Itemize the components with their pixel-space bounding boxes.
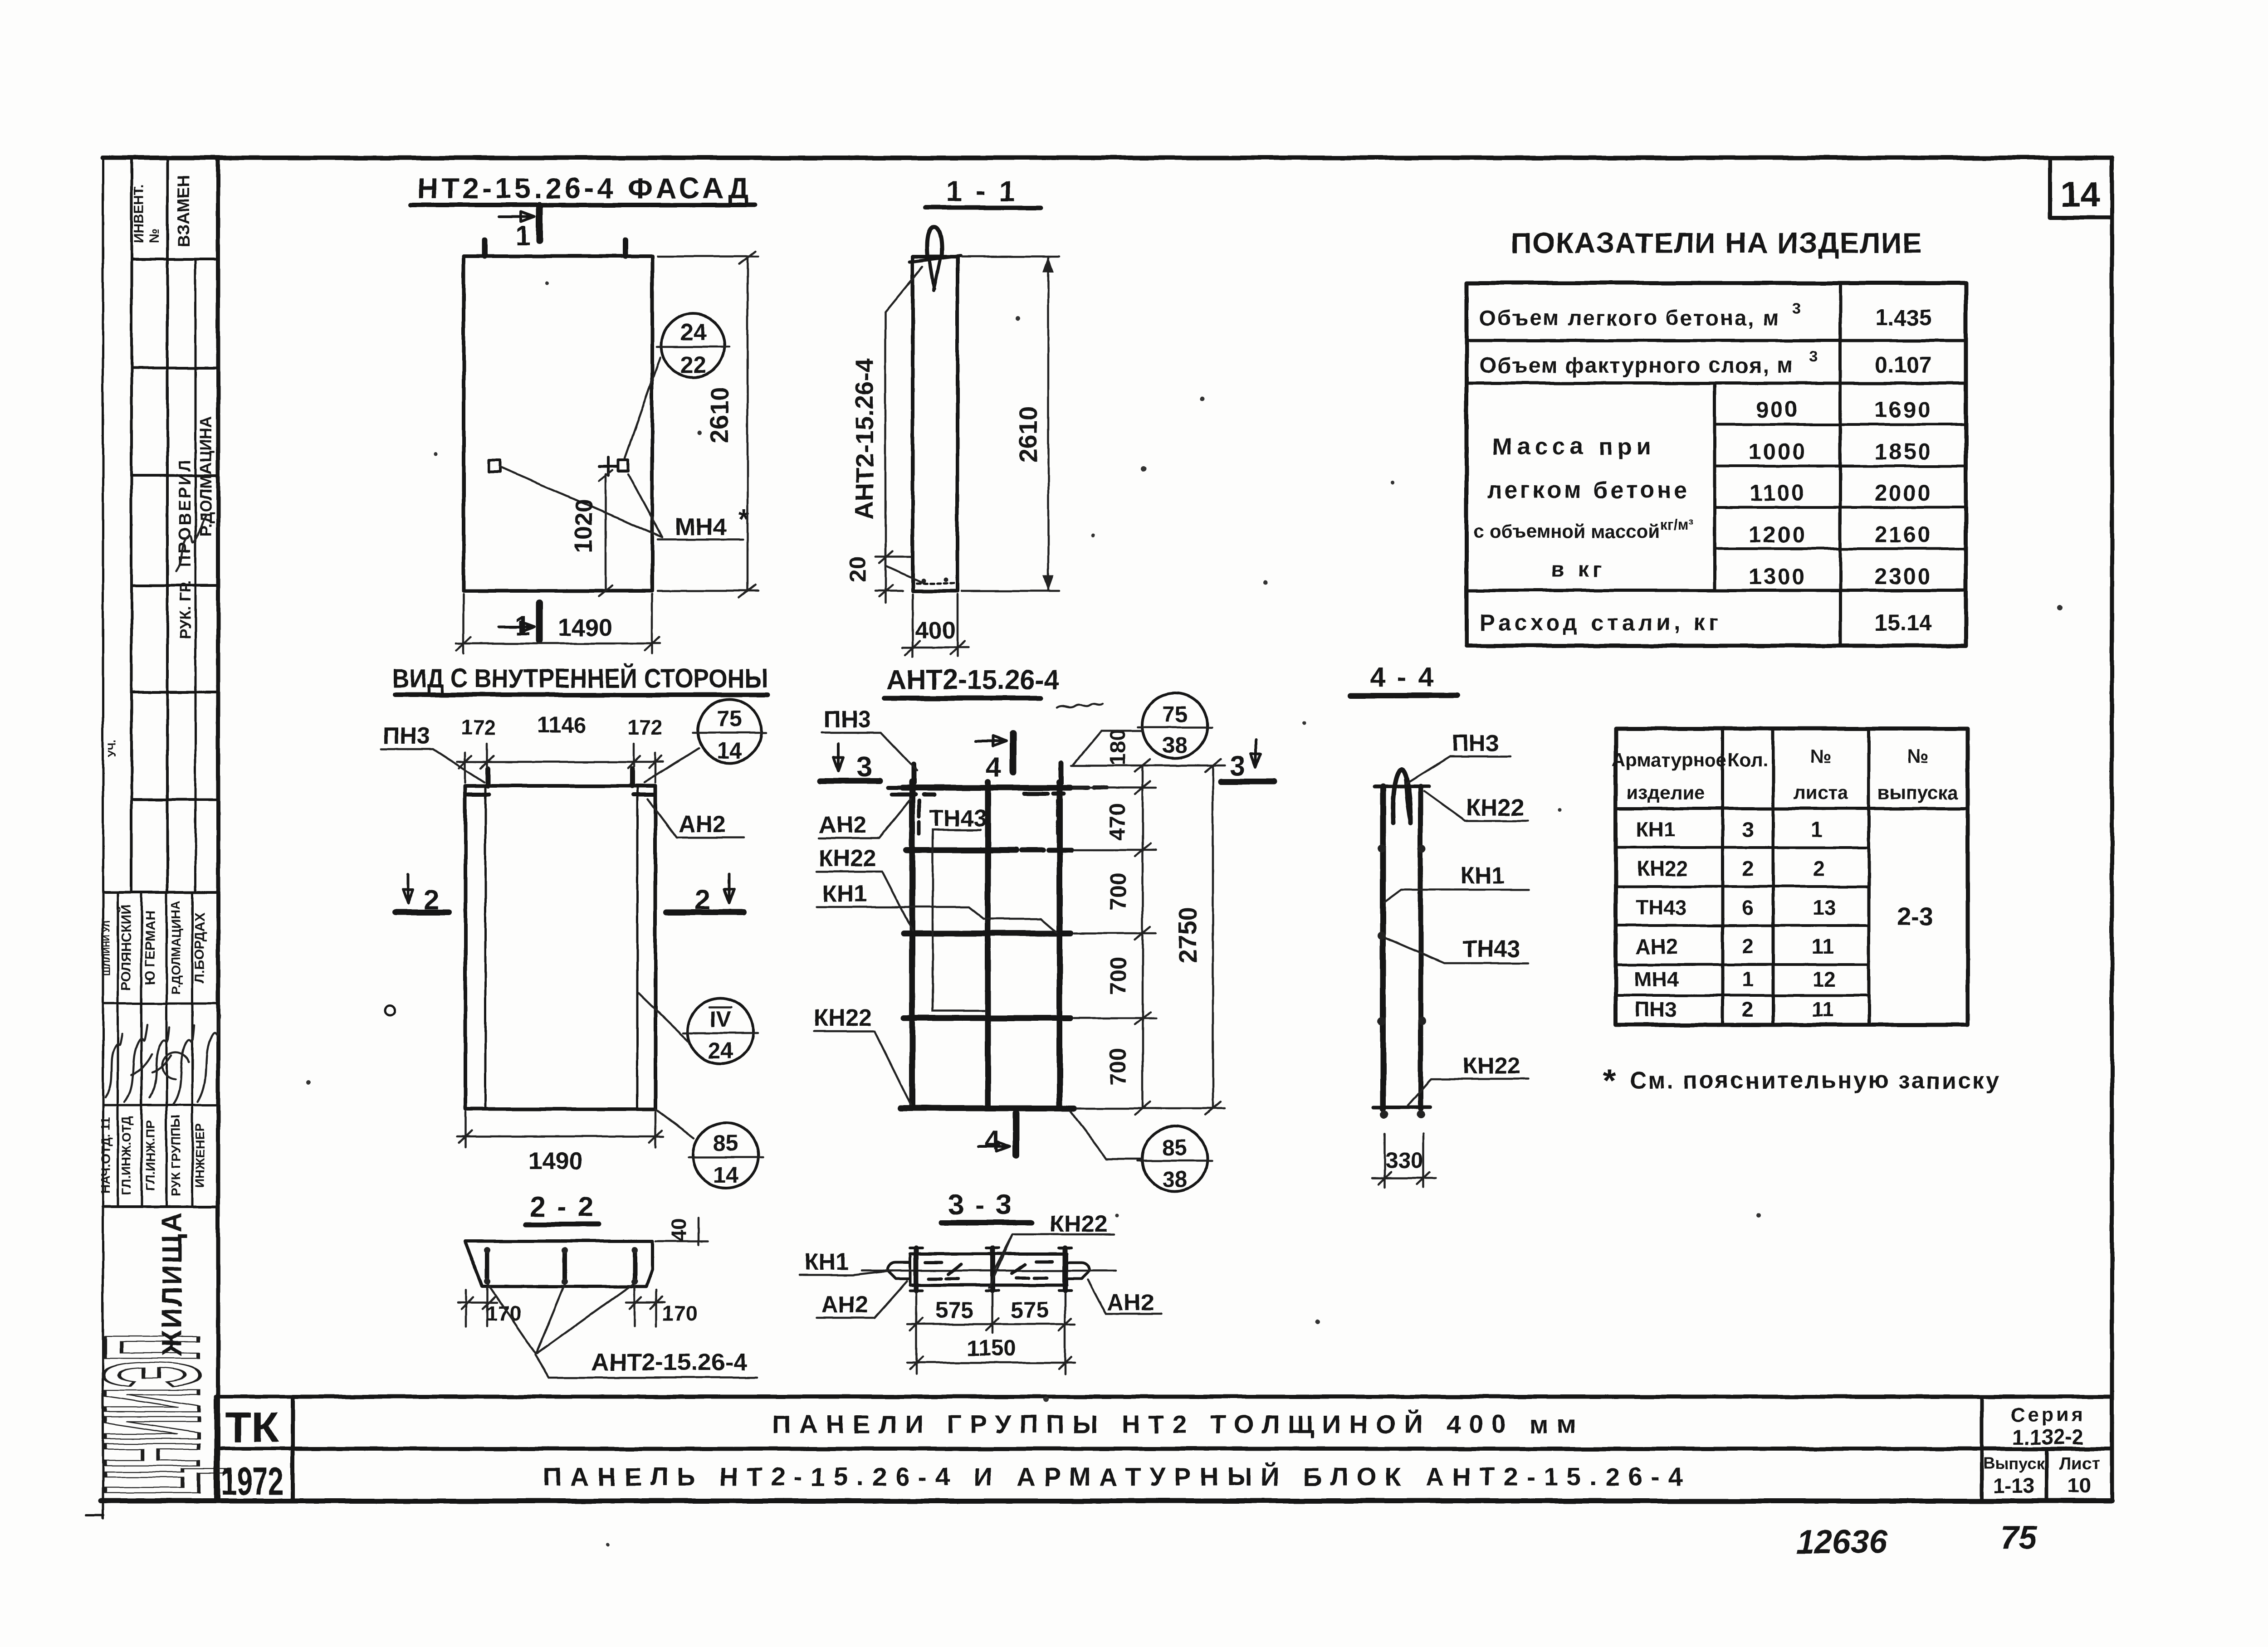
series box — [1982, 1397, 2047, 1500]
svg-text:См. пояснительную записку: См. пояснительную записку — [1629, 1067, 1999, 1094]
anchor cross mark — [599, 457, 617, 475]
rebar block title underline — [885, 696, 1041, 701]
svg-text:12636: 12636 — [1796, 1524, 1887, 1560]
section 2-2 underline — [526, 1222, 599, 1227]
dim 170 left ext — [466, 1287, 487, 1326]
svg-text:75: 75 — [2000, 1520, 2037, 1556]
circle IV/24 divider — [683, 1032, 758, 1034]
bar nub left 3 — [1378, 1017, 1386, 1025]
svg-text:14: 14 — [717, 738, 742, 763]
inner strip line right — [636, 786, 639, 1109]
svg-text:ВИД С ВНУТРЕННЕЙ СТОРОНЫ: ВИД С ВНУТРЕННЕЙ СТОРОНЫ — [392, 664, 768, 693]
inner dashes right bay — [1012, 1262, 1052, 1278]
TITLE-BLOCK — [216, 1397, 2112, 1560]
svg-text:38: 38 — [1162, 732, 1188, 758]
svg-text:КН22: КН22 — [1637, 857, 1688, 880]
svg-text:листа: листа — [1794, 782, 1848, 803]
section 4-4 underline — [1351, 693, 1457, 698]
dim 1490 bottom ticks — [459, 1130, 662, 1143]
table value column line — [1839, 283, 1842, 646]
svg-text:1: 1 — [1811, 818, 1823, 841]
svg-text:№: № — [1810, 746, 1832, 767]
facing layer bottom speckle — [916, 582, 954, 585]
section 3 right arrow — [1251, 739, 1261, 767]
dim right ext top — [1071, 765, 1156, 767]
leader circle 75/38 — [1073, 731, 1143, 765]
svg-text:Расход стали, кг: Расход стали, кг — [1480, 610, 1722, 635]
dim 1490 line bottom — [457, 1135, 663, 1138]
svg-text:575: 575 — [1011, 1297, 1048, 1323]
dim 40 ext — [655, 1218, 708, 1245]
SECTION-1-1 — [845, 175, 1059, 657]
svg-text:выпуска: выпуска — [1877, 782, 1958, 803]
svg-text:ПОКАЗАТЕЛИ НА ИЗДЕЛИЕ: ПОКАЗАТЕЛИ НА ИЗДЕЛИЕ — [1511, 227, 1922, 259]
AN2 underline leader — [648, 799, 744, 838]
svg-text:Выпуск: Выпуск — [1983, 1454, 2045, 1473]
right end tab — [1067, 1254, 1090, 1285]
rebar table row line 2 — [1616, 885, 1869, 888]
inner view title underline — [395, 692, 767, 697]
svg-text:1020: 1020 — [570, 499, 597, 553]
left border foot tick — [86, 1514, 103, 1516]
svg-text:ТН43: ТН43 — [1462, 936, 1520, 962]
section 1-1 title underline — [925, 205, 1041, 210]
svg-text:Масса при: Масса при — [1492, 434, 1656, 460]
svg-text:Объем легкого бетона, м: Объем легкого бетона, м — [1480, 306, 1780, 330]
dim 2610 arrows — [1043, 257, 1054, 591]
signature squiggle col1 — [105, 1034, 122, 1097]
PN3 leg dash right — [1056, 800, 1060, 833]
svg-text:Объем фактурного слоя, м: Объем фактурного слоя, м — [1480, 354, 1794, 378]
dim top line — [457, 761, 663, 763]
svg-text:2 - 2: 2 - 2 — [530, 1191, 595, 1223]
dim 575 line — [907, 1323, 1075, 1325]
table line row1 — [1466, 339, 1966, 342]
mark circle 75/14 — [698, 699, 761, 763]
dim 2610 extension top — [962, 256, 1059, 258]
dim 2750 line — [1156, 765, 1225, 1108]
center axis line — [862, 1270, 1116, 1272]
rebar table row line 3 — [1616, 924, 1869, 927]
KN22 bottom underline leader — [1408, 1079, 1529, 1106]
svg-text:Лист: Лист — [2059, 1454, 2100, 1473]
svg-text:кг/м³: кг/м³ — [1660, 517, 1693, 533]
svg-text:22: 22 — [680, 352, 706, 378]
rebar group 1 dots — [484, 1247, 490, 1253]
svg-text:4 - 4: 4 - 4 — [1370, 662, 1435, 693]
dim 330 ext lines — [1385, 1134, 1423, 1187]
INDICATORS-TABLE — [1466, 227, 1966, 646]
signature squiggle col3 — [150, 1027, 171, 1097]
svg-text:11: 11 — [1812, 935, 1834, 958]
svg-text:Арматурное: Арматурное — [1612, 749, 1727, 770]
svg-text:700: 700 — [1105, 1048, 1131, 1085]
rebar table col line 3 — [1867, 729, 1871, 1025]
PN3 tick right — [630, 769, 635, 786]
svg-text:КН22: КН22 — [1050, 1211, 1107, 1237]
svg-text:1200: 1200 — [1749, 522, 1806, 547]
dim 1490 ticks — [456, 637, 660, 651]
mark circle 85/14 — [693, 1123, 758, 1188]
section 3 left underline — [820, 778, 880, 784]
svg-text:2: 2 — [1813, 857, 1825, 880]
body outline top — [910, 1252, 1067, 1256]
section 2-2 body — [464, 1241, 652, 1286]
vertical bar right — [1057, 782, 1063, 1108]
dim 1150 ticks — [910, 1357, 1071, 1369]
table line row2 — [1466, 382, 1966, 385]
mass sub row line 4 — [1715, 547, 1966, 550]
svg-text:400: 400 — [915, 617, 956, 644]
LEFT-STAMP-COLUMN — [76, 158, 228, 1500]
svg-text:3: 3 — [1809, 348, 1818, 365]
svg-text:ИНВЕНТ.: ИНВЕНТ. — [132, 185, 147, 244]
mark circle 85/38 — [1142, 1126, 1207, 1192]
svg-text:1.435: 1.435 — [1875, 305, 1931, 330]
lifting loop tick left — [482, 240, 488, 256]
signature table divider signs/roles — [103, 1104, 218, 1106]
dim 20 tick line — [879, 544, 893, 603]
leader label to hook — [885, 267, 923, 312]
dim top ext lines — [465, 744, 655, 783]
bar nub bottom right — [1417, 1111, 1425, 1119]
svg-text:40: 40 — [667, 1218, 690, 1241]
rebar group 2 dots — [562, 1247, 568, 1253]
leader circle to anchor — [625, 357, 660, 458]
sheet top frame line — [103, 156, 2112, 160]
signature squiggle col2 — [125, 1025, 152, 1102]
svg-text:ПН3: ПН3 — [1452, 730, 1499, 756]
svg-text:КН22: КН22 — [1466, 794, 1524, 821]
svg-text:1972: 1972 — [221, 1460, 283, 1503]
mass sub row line 2 — [1715, 465, 1966, 468]
inner strip line left — [484, 786, 487, 1109]
SHEET-FRAME — [86, 158, 2112, 1518]
svg-text:КН22: КН22 — [814, 1005, 871, 1031]
KN22 top underline leader — [1424, 791, 1528, 821]
REBAR-TABLE — [1612, 729, 1968, 1025]
svg-text:в кг: в кг — [1551, 558, 1605, 582]
svg-text:14: 14 — [2061, 174, 2100, 214]
left end tab — [888, 1254, 910, 1285]
dim right ext bottom — [1077, 1107, 1156, 1110]
svg-text:ТК: ТК — [225, 1403, 279, 1452]
dim 1490 line — [456, 643, 660, 645]
SECTION-3-3 — [799, 1189, 1161, 1374]
sheet number box 14 — [2050, 160, 2112, 218]
svg-text:172: 172 — [628, 716, 663, 739]
dim 170 right line — [626, 1297, 665, 1309]
SECTION-4-4 — [1351, 662, 1529, 1187]
svg-text:0.107: 0.107 — [1875, 352, 1931, 378]
stamp row divider y1049 — [132, 474, 218, 477]
svg-text:УЧ.: УЧ. — [106, 740, 118, 757]
svg-text:1: 1 — [515, 220, 530, 251]
svg-text:изделие: изделие — [1627, 782, 1705, 803]
dim 1020 ticks — [599, 470, 612, 596]
PN3 underline leader — [822, 733, 917, 771]
leader label to bottom anchor — [885, 312, 922, 582]
svg-text:170: 170 — [486, 1301, 521, 1325]
svg-text:38: 38 — [1162, 1167, 1188, 1192]
section mark 1 top arrow — [499, 212, 534, 222]
frame bottom edge — [101, 1499, 2112, 1504]
PN3 tick above right bar — [1059, 763, 1064, 783]
svg-text:легком бетоне: легком бетоне — [1487, 477, 1690, 503]
signature table column line 2 — [141, 892, 143, 1207]
circle IV overbar — [709, 1007, 731, 1009]
svg-text:ПН3: ПН3 — [824, 707, 871, 733]
svg-text:170: 170 — [662, 1301, 697, 1325]
svg-text:3: 3 — [1793, 300, 1801, 317]
mass sub row line 3 — [1715, 506, 1966, 509]
svg-text:2: 2 — [1742, 857, 1754, 880]
svg-text:1: 1 — [1742, 967, 1754, 991]
svg-text:2160: 2160 — [1874, 522, 1932, 547]
signature squiggle upper — [176, 515, 206, 571]
svg-text:АНТ2-15.26-4: АНТ2-15.26-4 — [887, 664, 1060, 696]
scan noise specks — [306, 282, 2062, 1546]
svg-text:АНТ2-15.26-4: АНТ2-15.26-4 — [850, 359, 879, 520]
dim 1020 line — [605, 474, 607, 591]
svg-text:МН4: МН4 — [1634, 967, 1679, 991]
stamp row divider y1763 — [132, 798, 218, 801]
dim 20 ext lines — [875, 557, 911, 591]
svg-text:Серия: Серия — [2010, 1404, 2086, 1426]
dim right ext rows — [1074, 788, 1156, 1018]
section 3 left arrow — [833, 744, 843, 771]
svg-text:ГЛ.ИНЖ.ОТД: ГЛ.ИНЖ.ОТД — [119, 1116, 133, 1195]
label underline — [535, 1355, 757, 1378]
svg-text:2610: 2610 — [705, 387, 733, 443]
svg-text:15.14: 15.14 — [1875, 610, 1931, 635]
small circle mark — [385, 1005, 395, 1015]
signature table top line — [103, 891, 218, 894]
mass sub row line 1 — [1715, 423, 1966, 426]
top tie — [1374, 785, 1429, 788]
bar nub right 1 — [1418, 844, 1426, 853]
svg-text:1.132-2: 1.132-2 — [2013, 1425, 2083, 1449]
label MN4 underline — [658, 539, 743, 541]
svg-text:1000: 1000 — [1749, 439, 1806, 464]
svg-text:3: 3 — [1742, 818, 1754, 841]
TN43 outline box — [933, 830, 985, 1011]
mark circle IV/24 — [688, 999, 753, 1064]
KN1 underline leader — [799, 1271, 893, 1275]
dim 575 ticks — [910, 1318, 1071, 1330]
facade title underline — [411, 203, 755, 207]
rebar group 1 — [485, 1249, 489, 1282]
leader lines to label point — [487, 1283, 635, 1354]
svg-text:180: 180 — [1106, 729, 1130, 765]
KN22 second underline leader — [814, 1031, 911, 1105]
svg-text:4: 4 — [986, 752, 1001, 782]
anchor bar right ticks — [1059, 1248, 1071, 1291]
svg-text:14: 14 — [713, 1162, 738, 1188]
svg-text:2: 2 — [1742, 998, 1754, 1021]
section 2 right arrow — [724, 874, 734, 903]
svg-text:АН2: АН2 — [821, 1291, 868, 1318]
body outline bottom — [910, 1284, 1067, 1287]
svg-text:КН22: КН22 — [818, 845, 876, 872]
circle 75/14 divider — [693, 732, 766, 734]
svg-text:900: 900 — [1756, 397, 1799, 422]
dim 400 line — [903, 647, 968, 649]
rebar group 3 — [632, 1249, 637, 1282]
svg-text:АН2: АН2 — [1107, 1290, 1154, 1316]
leader circle 85/14 to corner — [655, 1109, 694, 1138]
dim 2610 extension top — [658, 255, 758, 258]
svg-text:2-3: 2-3 — [1897, 902, 1934, 931]
dim top ticks — [459, 756, 662, 768]
stamp vertical line x290 — [130, 159, 133, 892]
svg-text:РУК. ГР.: РУК. ГР. — [177, 580, 194, 639]
svg-text:330: 330 — [1385, 1148, 1423, 1173]
leader circle IV/24 to strip — [639, 993, 688, 1041]
svg-text:75: 75 — [1162, 702, 1188, 727]
FOOTNOTE — [1603, 1063, 1999, 1099]
PN3 leg dash left — [917, 800, 921, 833]
svg-text:1100: 1100 — [1750, 480, 1806, 506]
section 4 bottom tick — [1013, 1113, 1020, 1155]
AN2 dash left — [892, 793, 934, 797]
squiggle mark near circle — [1057, 704, 1103, 707]
KN22 leader — [989, 1234, 1114, 1288]
PN3 tick above left bar — [912, 765, 917, 783]
svg-text:13: 13 — [1813, 896, 1836, 919]
lifting loop tick right — [622, 240, 628, 256]
svg-text:20: 20 — [845, 556, 870, 582]
section mark 1 bottom tick — [536, 603, 543, 640]
FACADE-VIEW — [411, 172, 758, 654]
svg-text:2000: 2000 — [1874, 480, 1932, 506]
title block outer box — [293, 1397, 2112, 1500]
SECTION-2-2 — [458, 1191, 757, 1378]
stamp row divider y1291 — [132, 584, 218, 587]
svg-text:6: 6 — [1742, 896, 1754, 919]
bar right — [1418, 786, 1423, 1109]
dim 400 ext lines — [913, 594, 958, 657]
svg-text:АН2: АН2 — [1636, 935, 1677, 958]
signature squiggle col5 — [198, 1016, 220, 1102]
svg-text:470: 470 — [1105, 803, 1130, 840]
leader anchor left to MN4 point — [500, 467, 662, 537]
anchor square left — [489, 460, 500, 472]
inner dashes left bay — [925, 1262, 961, 1279]
svg-text:2750: 2750 — [1173, 907, 1202, 964]
section 2 left arrow — [403, 874, 413, 903]
signature table column line 3 — [166, 892, 168, 1207]
svg-text:24: 24 — [708, 1038, 733, 1063]
KN1 underline leader stepped — [816, 907, 1057, 932]
svg-text:575: 575 — [935, 1297, 973, 1323]
bar left — [1380, 786, 1386, 1109]
svg-text:МН4: МН4 — [675, 513, 727, 541]
horizontal bar 3 — [904, 931, 1070, 936]
mark circle 75/38 — [1142, 693, 1207, 758]
rebar table row line 1 — [1616, 846, 1869, 849]
leader MN4 to anchor — [628, 474, 662, 537]
svg-text:700: 700 — [1105, 872, 1131, 910]
svg-text:2610: 2610 — [1014, 406, 1042, 463]
signature table bottom line — [103, 1205, 218, 1208]
svg-text:1146: 1146 — [537, 712, 586, 738]
section 3 right underline — [1221, 779, 1274, 785]
rebar group 2 — [562, 1249, 567, 1282]
svg-text:11: 11 — [1812, 998, 1834, 1021]
svg-text:*: * — [1603, 1063, 1616, 1099]
dim 2610 extension bottom — [962, 590, 1059, 592]
svg-text:ПН3: ПН3 — [383, 723, 430, 749]
dim chain ticks — [1135, 759, 1150, 1115]
dim 1490 ext lines — [465, 1112, 655, 1147]
loop legs inside — [929, 257, 941, 290]
mass sub column line — [1713, 383, 1716, 590]
dim 2610 ticks — [739, 251, 756, 598]
dim 1150 line — [907, 1362, 1075, 1364]
AN2 left underline leader — [816, 1281, 907, 1318]
leader circle 85/38 — [1070, 1111, 1142, 1159]
section mark 1 top tick — [536, 205, 543, 240]
PN3 tick left — [486, 769, 491, 786]
TK box — [216, 1397, 293, 1500]
KN22 underline leader — [816, 872, 913, 931]
KN1 underline leader — [1384, 890, 1529, 902]
svg-text:Кол.: Кол. — [1728, 749, 1768, 770]
anchor bar right — [1063, 1248, 1068, 1291]
svg-text:IV: IV — [710, 1008, 730, 1032]
svg-text:75: 75 — [717, 706, 742, 731]
dim 400 ticks — [905, 641, 965, 655]
anchor dash top-left — [468, 793, 489, 797]
anchor square right — [618, 460, 628, 471]
svg-text:24: 24 — [680, 319, 706, 346]
section 4 top tick — [1010, 734, 1017, 772]
horizontal bar 2 dash end — [1022, 848, 1071, 853]
stamp vertical divider x431 — [195, 259, 197, 892]
svg-text:ЦНИИЭП: ЦНИИЭП — [76, 1334, 228, 1496]
vertical bar middle — [985, 782, 991, 1108]
rebar table col line 1 — [1721, 729, 1725, 1025]
svg-text:КН1: КН1 — [1460, 862, 1505, 889]
dim 170 right ext — [635, 1287, 656, 1326]
svg-text:КН1: КН1 — [822, 881, 867, 907]
lifting loop hook top — [927, 227, 942, 257]
stamp right edge (frame left) — [216, 158, 220, 1500]
svg-text:КН1: КН1 — [1636, 818, 1676, 841]
svg-text:1490: 1490 — [558, 614, 612, 641]
mark circle 24/22 divider — [657, 346, 729, 348]
anchor bar middle ticks — [986, 1248, 999, 1291]
stamp row divider y812 — [132, 367, 218, 370]
dim 575 ext lines — [916, 1293, 1065, 1374]
svg-text:85: 85 — [1162, 1135, 1188, 1160]
bar nub left 2 — [1378, 931, 1386, 940]
rebar table header line — [1616, 807, 1968, 810]
panel section outline — [913, 257, 958, 591]
panel inner outline — [465, 786, 655, 1109]
AN2 underline leader — [819, 799, 911, 838]
facing layer dots — [921, 578, 925, 583]
bar nub left 1 — [1378, 844, 1386, 853]
signature table divider names/signs — [103, 1003, 218, 1005]
facade panel outline — [464, 256, 652, 591]
svg-text:ТН43: ТН43 — [929, 805, 987, 832]
svg-text:РОЛЯНСКИЙ: РОЛЯНСКИЙ — [118, 905, 134, 991]
svg-text:ПАНЕЛИ ГРУППЫ НТ2 ТОЛЩИНОЙ: ПАНЕЛИ ГРУППЫ НТ2 ТОЛЩИНОЙ 400 мм — [772, 1409, 1576, 1439]
AN2 right underline leader — [1088, 1280, 1161, 1314]
circle 85/14 divider — [689, 1156, 763, 1159]
